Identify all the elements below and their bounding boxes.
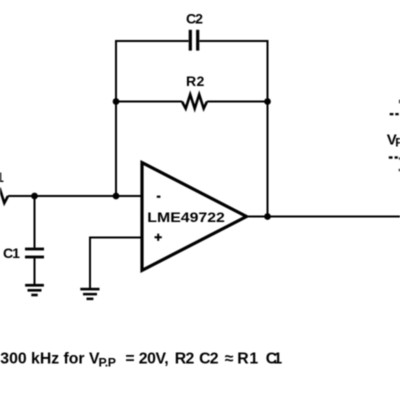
svg-text:LME49722: LME49722 xyxy=(147,209,225,225)
svg-text:R1: R1 xyxy=(0,169,4,185)
svg-text:20V,: 20V, xyxy=(139,350,169,367)
svg-text:P: P xyxy=(395,136,400,150)
svg-text:=: = xyxy=(125,350,134,367)
svg-text:≈: ≈ xyxy=(225,350,234,367)
svg-text:C1: C1 xyxy=(3,245,20,261)
svg-text:R2: R2 xyxy=(186,73,205,89)
svg-text:C2: C2 xyxy=(199,350,219,367)
svg-text:300 kHz for V: 300 kHz for V xyxy=(0,350,100,367)
svg-text:C2: C2 xyxy=(186,10,203,26)
svg-text:P.P: P.P xyxy=(99,355,117,369)
svg-text:R2: R2 xyxy=(175,350,195,367)
svg-text:C1: C1 xyxy=(266,350,283,367)
svg-text:R1: R1 xyxy=(237,350,258,367)
